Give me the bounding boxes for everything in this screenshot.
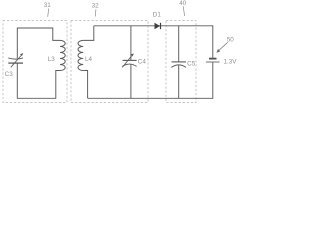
svg-text:L4: L4	[85, 56, 93, 63]
wire: main bottom rail	[88, 62, 213, 98]
svg-text:D1: D1	[153, 11, 162, 18]
wire: tank loop bottom (L3 bottom to C3 bottom)	[17, 63, 60, 98]
battery 50	[206, 59, 220, 62]
dashed box 31	[3, 21, 67, 103]
dashed box 32	[71, 21, 148, 103]
label 40	[179, 0, 187, 16]
svg-text:C4: C4	[138, 59, 147, 66]
capacitor C3 (variable)	[8, 53, 23, 67]
diode D1	[155, 23, 161, 29]
inductor L3	[60, 40, 65, 70]
wire: L4 top step from main wire	[83, 26, 94, 41]
inductor L4	[78, 40, 83, 70]
label 50 with arrow leader	[216, 37, 234, 53]
svg-text:32: 32	[92, 2, 100, 9]
svg-text:L3: L3	[48, 56, 56, 63]
wire: tank loop left/top (C3 to L3 top step)	[17, 28, 60, 58]
svg-text:31: 31	[44, 2, 52, 9]
svg-text:40: 40	[179, 0, 187, 7]
capacitor C4 (variable)	[122, 26, 136, 99]
wire: L4 bottom step	[83, 71, 87, 99]
svg-text:C3: C3	[5, 71, 14, 78]
capacitor C5	[171, 26, 186, 99]
dashed box 40	[166, 21, 196, 103]
label 32	[92, 2, 100, 16]
svg-text:C5: C5	[187, 61, 196, 68]
label 31	[44, 2, 52, 17]
svg-text:1.3V: 1.3V	[224, 59, 238, 66]
wire: main top rail	[94, 26, 213, 58]
